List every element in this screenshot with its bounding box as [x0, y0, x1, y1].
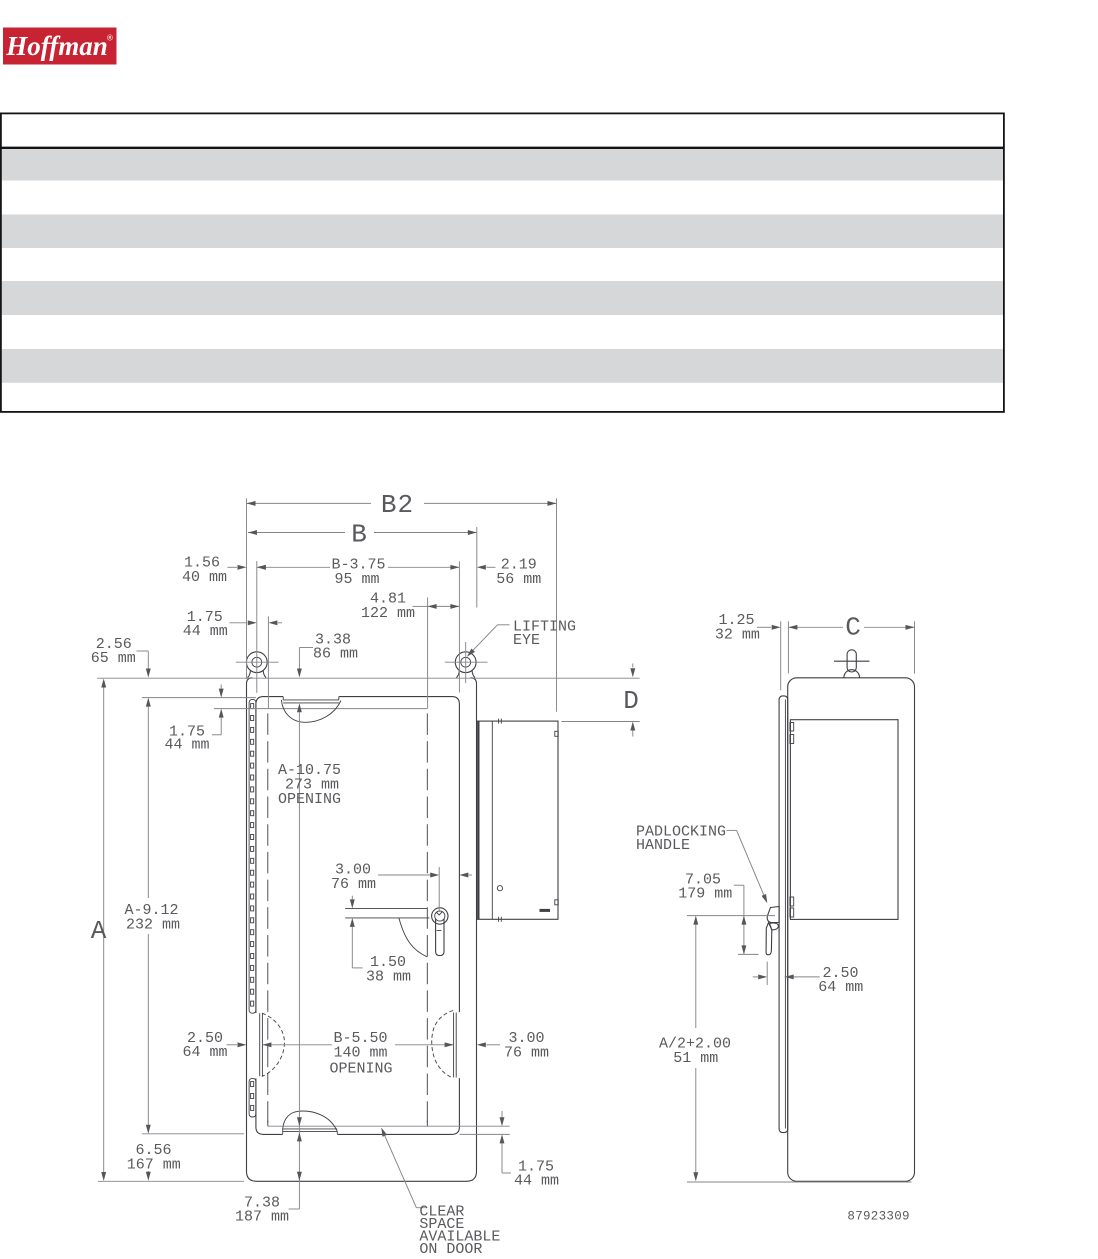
dimension 1.75 / 44 mm (door top gap) [164, 685, 223, 754]
opening-left extension line [267, 616, 269, 709]
svg-text:86 mm: 86 mm [313, 646, 358, 663]
leader LIFTING EYE [465, 619, 576, 659]
handle-bottom extension line [738, 953, 759, 955]
svg-text:Hoffman: Hoffman [5, 31, 108, 61]
svg-text:76 mm: 76 mm [331, 876, 376, 893]
svg-text:95 mm: 95 mm [334, 571, 379, 588]
svg-text:B: B [351, 520, 368, 550]
continuous hinge (lower channel) [249, 1078, 256, 1117]
svg-text:D: D [623, 686, 640, 716]
eye centerline extension left [256, 561, 258, 630]
svg-text:40 mm: 40 mm [182, 569, 227, 586]
svg-text:C: C [845, 613, 862, 643]
lifting eye right [445, 642, 488, 683]
dimension 2.50 / 64 mm (left) [182, 1030, 246, 1061]
body-top extension line across page [97, 677, 640, 679]
dimension A/2+2.00 / 51 mm [659, 916, 731, 1182]
door top clear-space bump [281, 697, 341, 723]
door right clear-space bump (dashed arc) [432, 1011, 456, 1078]
opening-right extension line (solid above door) [427, 598, 429, 709]
C extension lines [780, 621, 782, 690]
bottom-right extension lines [459, 1133, 509, 1135]
svg-text:87923309: 87923309 [847, 1210, 909, 1224]
dimension B2 [247, 490, 557, 520]
door left clear-space bump (dashed arc) [260, 1013, 285, 1076]
svg-text:167 mm: 167 mm [127, 1157, 181, 1174]
handle swing arc [399, 918, 427, 957]
body-bottom extension line left [98, 1180, 244, 1182]
dimension 1.75 / 44 mm (top) [183, 609, 282, 640]
dimension 3.00 / 76 mm (right) [477, 1030, 549, 1062]
B2 extension lines [246, 498, 248, 679]
svg-text:51 mm: 51 mm [673, 1050, 718, 1067]
dimension A (overall height) [91, 679, 108, 1182]
dimension C [788, 613, 914, 643]
door-top extension line left [142, 697, 256, 699]
door-bottom extension line left [142, 1133, 244, 1135]
svg-text:64 mm: 64 mm [818, 979, 863, 996]
leader PADLOCKING HANDLE [636, 824, 770, 905]
dimension 3.00 / 76 mm (handle) [331, 862, 472, 913]
dimension D [561, 664, 640, 737]
door opening (top/bottom thin, sides long-dashed) [214, 709, 510, 1127]
svg-text:56 mm: 56 mm [496, 571, 541, 588]
leader 3.38 / 86 mm with arrows [297, 632, 358, 1210]
padlocking handle (side) [766, 907, 779, 955]
svg-text:44 mm: 44 mm [164, 737, 209, 754]
front view enclosure body [247, 678, 477, 1182]
svg-text:140 mm: 140 mm [333, 1045, 387, 1062]
svg-text:OPENING: OPENING [278, 791, 341, 808]
bottom arrows on 7.38 line [235, 1117, 302, 1225]
lifting eye left [236, 630, 279, 693]
svg-text:32 mm: 32 mm [715, 627, 760, 644]
dimension 1.56 / 40 mm [182, 555, 266, 587]
svg-text:44 mm: 44 mm [183, 623, 228, 640]
dimension B-5.50 / 140 mm OPENING [262, 1030, 453, 1078]
dimension 2.50 / 64 mm (side) [753, 962, 864, 996]
B extension line right [476, 527, 478, 608]
leader 2.56 / 65 mm [91, 636, 151, 678]
svg-text:ON DOOR: ON DOOR [419, 1241, 482, 1258]
side view sub-panel [790, 720, 898, 920]
dimension B-3.75 / 95 mm [257, 557, 460, 589]
leader CLEAR SPACE AVAILABLE ON DOOR [379, 1127, 500, 1258]
svg-text:187 mm: 187 mm [235, 1209, 289, 1226]
svg-text:122 mm: 122 mm [361, 605, 415, 622]
side view door strip [779, 696, 788, 1133]
text A-10.75 OPENING [278, 762, 341, 808]
side view enclosure body [788, 678, 915, 1182]
svg-text:EYE: EYE [513, 632, 540, 649]
svg-text:®: ® [107, 34, 113, 43]
dimension 6.56 / 167 mm [127, 1142, 181, 1181]
leader 1.50 / 38 mm [350, 918, 411, 986]
svg-text:179 mm: 179 mm [678, 886, 732, 903]
data table (empty striped) [0, 113, 1004, 412]
door bottom clear-space bump [283, 1111, 338, 1134]
front view door outline (with clear-space gaps) [256, 697, 460, 1135]
svg-text:B2: B2 [381, 490, 414, 520]
door side-profile box (depth D) [477, 719, 558, 922]
dimension 4.81 / 122 mm [361, 591, 459, 623]
dimension 7.05 / 179 mm [678, 872, 746, 955]
Hoffman logo [3, 28, 117, 65]
svg-text:64 mm: 64 mm [182, 1044, 227, 1061]
sub-panel top edge lines [345, 907, 427, 909]
quarter-turn handle (front) [432, 908, 448, 956]
svg-text:HANDLE: HANDLE [636, 837, 690, 854]
svg-text:OPENING: OPENING [329, 1061, 392, 1078]
handle-top extension line [687, 915, 775, 917]
dimension 2.19 / 56 mm [477, 557, 542, 589]
dimension B [248, 520, 477, 550]
svg-text:76 mm: 76 mm [504, 1045, 549, 1062]
dimension A-9.12 / 232 mm [124, 698, 180, 1134]
side view lifting eye [834, 650, 870, 678]
side-view bottom extension line [687, 1181, 912, 1183]
dimension 1.75 / 44 mm (bottom right) [500, 1111, 559, 1190]
svg-text:44 mm: 44 mm [514, 1173, 559, 1190]
dimension 1.25 / 32 mm [715, 612, 781, 644]
continuous hinge (upper channel with knuckle dashes) [249, 699, 256, 1013]
svg-text:A: A [91, 916, 108, 946]
svg-text:232 mm: 232 mm [126, 917, 180, 934]
svg-text:65 mm: 65 mm [91, 650, 136, 667]
door-right extension line [458, 561, 460, 692]
svg-text:38 mm: 38 mm [366, 969, 411, 986]
